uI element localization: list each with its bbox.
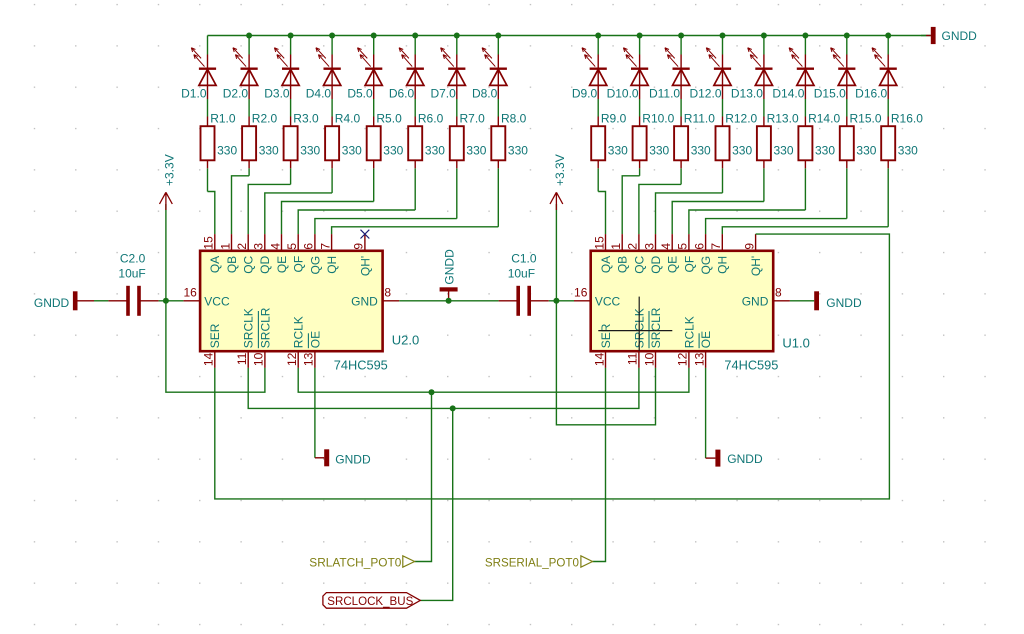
- svg-text:QG: QG: [699, 256, 713, 275]
- capacitor C1.0 10uF: [499, 286, 549, 316]
- resistor R15.0 330: [840, 117, 854, 169]
- svg-text:330: 330: [217, 144, 237, 158]
- svg-text:R14.0: R14.0: [808, 112, 840, 126]
- svg-text:10uF: 10uF: [118, 266, 145, 280]
- U1.0 pin 12 RCLK: [676, 316, 697, 368]
- U1.0 pin 14 SER: [592, 323, 613, 368]
- svg-text:4: 4: [268, 243, 282, 250]
- junction +3.3V / VCC (right): [553, 298, 559, 304]
- svg-text:R7.0: R7.0: [460, 112, 486, 126]
- junction SRCLK / SRCLOCK_BUS drop: [450, 405, 456, 411]
- svg-text:GNDD: GNDD: [335, 452, 371, 466]
- svg-text:D10.0: D10.0: [607, 87, 639, 101]
- wire D3.0 column: [290, 36, 292, 185]
- capacitor C2.0 10uF: [108, 286, 158, 316]
- svg-text:R16.0: R16.0: [891, 112, 923, 126]
- junction D16.0 column / GND bus: [885, 33, 891, 39]
- wire D10.0 column: [639, 36, 641, 176]
- U1.0 pin 6 QG: [692, 234, 713, 274]
- svg-text:330: 330: [466, 144, 486, 158]
- resistor R11.0 330: [674, 117, 688, 169]
- ground GNDD (below U1.0): [715, 450, 763, 467]
- wire U2.0 OE (pin 13) to GNDD: [314, 368, 316, 458]
- svg-text:D11.0: D11.0: [649, 87, 680, 101]
- wire SRCLOCK_BUS drop: [420, 408, 452, 600]
- wire SRCLK net: U2.0 pin 11 to U1.0 pin 11: [248, 368, 639, 409]
- svg-text:16: 16: [574, 285, 588, 299]
- svg-text:OE: OE: [308, 331, 322, 348]
- junction D4.0 column / GND bus: [329, 33, 335, 39]
- svg-text:330: 330: [856, 144, 876, 158]
- svg-text:9: 9: [742, 243, 756, 250]
- no-connect flag U2.0 pin 9: [361, 230, 370, 239]
- svg-text:R13.0: R13.0: [767, 112, 799, 126]
- svg-text:SRSERIAL_POT0: SRSERIAL_POT0: [485, 555, 579, 569]
- U2.0 pin 13 OE: [302, 331, 323, 368]
- svg-text:9: 9: [352, 243, 366, 250]
- svg-text:GNDD: GNDD: [34, 296, 70, 310]
- resistor R7.0 330: [450, 117, 464, 169]
- junction D5.0 column / GND bus: [371, 33, 377, 39]
- U2.0 pin 12 RCLK: [285, 316, 306, 368]
- U2.0 pin 9 QH': [352, 234, 373, 276]
- svg-text:14: 14: [202, 352, 216, 366]
- svg-text:SRCLK: SRCLK: [242, 308, 256, 348]
- wire +3.3V to U2.0 SRCLR (pin 10): [166, 301, 265, 392]
- wire D5.0 column: [373, 36, 375, 202]
- wire R6.0 to shift register pin: [298, 210, 415, 234]
- LED D7.0: [441, 48, 466, 99]
- U2.0 pin 1 QB: [218, 234, 239, 273]
- svg-text:10: 10: [252, 352, 266, 366]
- wire U1.0 OE (pin 13) to GNDD: [705, 368, 707, 458]
- svg-text:15: 15: [592, 236, 606, 250]
- svg-text:R3.0: R3.0: [293, 112, 319, 126]
- svg-text:R5.0: R5.0: [376, 112, 402, 126]
- svg-text:D3.0: D3.0: [264, 87, 290, 101]
- svg-text:R10.0: R10.0: [642, 112, 674, 126]
- U1.0 pin 7 QH: [709, 234, 730, 274]
- svg-text:7: 7: [318, 243, 332, 250]
- svg-text:U1.0: U1.0: [782, 336, 809, 351]
- svg-text:QF: QF: [292, 256, 306, 273]
- LED D14.0: [789, 48, 814, 99]
- svg-text:GNDD: GNDD: [942, 29, 978, 43]
- wire RCLK net: U2.0 pin 12 to U1.0 pin 12: [298, 368, 689, 392]
- junction RCLK / SRLATCH_POT0 drop: [429, 389, 435, 395]
- svg-text:D1.0: D1.0: [181, 87, 207, 101]
- svg-text:R15.0: R15.0: [850, 112, 882, 126]
- svg-text:6: 6: [692, 243, 706, 250]
- junction GNDD / GND wire (middle): [446, 298, 452, 304]
- LED D13.0: [748, 48, 773, 99]
- svg-text:QH: QH: [325, 256, 339, 274]
- svg-text:330: 330: [383, 144, 403, 158]
- svg-text:8: 8: [384, 285, 391, 299]
- svg-text:D6.0: D6.0: [389, 87, 415, 101]
- svg-text:330: 330: [815, 144, 835, 158]
- resistor R13.0 330: [757, 117, 771, 169]
- U2.0 pin 14 SER: [202, 323, 223, 368]
- svg-text:QE: QE: [666, 256, 680, 273]
- svg-text:330: 330: [300, 144, 320, 158]
- svg-text:330: 330: [649, 144, 669, 158]
- svg-text:R9.0: R9.0: [601, 112, 627, 126]
- global label SRCLOCK_BUS: [323, 593, 420, 609]
- svg-text:74HC595: 74HC595: [334, 358, 388, 373]
- wire C1.0 to U1.0 VCC: [549, 300, 574, 302]
- svg-text:2: 2: [626, 243, 640, 250]
- junction D10.0 column / GND bus: [637, 33, 643, 39]
- svg-text:R8.0: R8.0: [501, 112, 527, 126]
- svg-text:QB: QB: [225, 256, 239, 273]
- svg-text:D16.0: D16.0: [855, 87, 887, 101]
- svg-text:OE: OE: [699, 331, 713, 348]
- svg-text:74HC595: 74HC595: [724, 358, 778, 373]
- ground GNDD (middle, rotated): [440, 249, 458, 301]
- wire D4.0 column: [331, 36, 333, 193]
- U1.0 pin 11 SRCLK: [626, 308, 647, 368]
- wire serial chain: U1.0 QH' (pin 9) to U2.0 SER (pin 14): [215, 234, 890, 499]
- svg-text:SRLATCH_POT0: SRLATCH_POT0: [309, 555, 401, 569]
- svg-text:D13.0: D13.0: [731, 87, 763, 101]
- LED D12.0: [706, 48, 731, 99]
- U1.0 pin 4 QE: [659, 234, 680, 273]
- LED D11.0: [665, 48, 690, 99]
- junction D11.0 column / GND bus: [678, 33, 684, 39]
- U1.0 pin 9 QH': [742, 234, 763, 276]
- wire SRLATCH_POT0 drop: [415, 392, 432, 561]
- svg-text:12: 12: [676, 352, 690, 366]
- LED D10.0: [623, 48, 648, 99]
- power +3.3V (right): [550, 154, 567, 301]
- U2.0 pin 16 VCC: [183, 285, 230, 308]
- svg-text:3: 3: [252, 243, 266, 250]
- svg-text:1: 1: [218, 243, 232, 250]
- svg-text:+3.3V: +3.3V: [553, 154, 567, 186]
- wire R8.0 to shift register pin: [332, 227, 499, 234]
- resistor R2.0 330: [242, 117, 256, 169]
- U2.0 pin 15 QA: [202, 234, 223, 273]
- resistor R4.0 330: [325, 117, 339, 169]
- U2.0 pin 6 QG: [302, 234, 323, 274]
- U2.0 pin 7 QH: [318, 234, 339, 274]
- svg-text:U2.0: U2.0: [392, 332, 419, 347]
- power +3.3V (left): [160, 154, 177, 301]
- LED D2.0: [233, 48, 258, 99]
- svg-text:QH': QH': [749, 256, 763, 276]
- svg-text:10: 10: [642, 352, 656, 366]
- svg-text:330: 330: [608, 144, 628, 158]
- U2.0 pin 11 SRCLK: [235, 308, 256, 368]
- resistor R3.0 330: [284, 117, 298, 169]
- svg-text:330: 330: [774, 144, 794, 158]
- svg-text:11: 11: [626, 352, 640, 365]
- svg-text:R1.0: R1.0: [210, 112, 236, 126]
- wire U2.0 GND to C1.0: [399, 300, 498, 302]
- svg-text:D12.0: D12.0: [689, 87, 721, 101]
- junction D13.0 column / GND bus: [761, 33, 767, 39]
- svg-text:D15.0: D15.0: [814, 87, 846, 101]
- wire R15.0 to shift register pin: [706, 219, 847, 235]
- wire R5.0 to shift register pin: [282, 202, 374, 235]
- svg-text:RCLK: RCLK: [682, 316, 696, 348]
- svg-text:R4.0: R4.0: [335, 112, 361, 126]
- svg-text:330: 330: [691, 144, 711, 158]
- wire D2.0 column: [248, 36, 250, 176]
- resistor R5.0 330: [367, 117, 381, 169]
- wire R9.0 to shift register pin: [598, 192, 605, 235]
- svg-text:330: 330: [898, 144, 918, 158]
- LED D3.0: [274, 48, 299, 99]
- svg-text:SRCLR: SRCLR: [258, 307, 272, 348]
- svg-text:QC: QC: [632, 255, 646, 273]
- U1.0 pin 3 QD: [642, 234, 663, 274]
- svg-text:QH: QH: [716, 256, 730, 274]
- svg-text:D2.0: D2.0: [223, 87, 249, 101]
- wire R3.0 to shift register pin: [248, 184, 290, 234]
- svg-text:D8.0: D8.0: [472, 87, 498, 101]
- junction D8.0 column / GND bus: [495, 33, 501, 39]
- wire R11.0 to shift register pin: [639, 184, 681, 234]
- svg-text:RCLK: RCLK: [292, 316, 306, 348]
- svg-text:5: 5: [676, 243, 690, 250]
- wire D8.0 column: [497, 36, 499, 227]
- LED D1.0: [191, 48, 216, 99]
- wire SRSERIAL_POT0 to U1.0 SER (pin 14): [593, 368, 606, 562]
- U2.0 pin 3 QD: [252, 234, 273, 274]
- svg-text:7: 7: [709, 243, 723, 250]
- U1.0 pin 13 OE: [692, 331, 713, 368]
- wire R14.0 to shift register pin: [689, 210, 806, 234]
- wire R16.0 to shift register pin: [722, 227, 888, 234]
- junction D2.0 column / GND bus: [246, 33, 252, 39]
- wire D1.0 column: [207, 36, 209, 192]
- wire GND bus (top horizontal): [208, 35, 931, 37]
- svg-text:VCC: VCC: [204, 295, 230, 309]
- wire R2.0 to shift register pin: [232, 176, 250, 234]
- svg-text:R11.0: R11.0: [684, 112, 715, 126]
- resistor R1.0 330: [201, 117, 215, 169]
- LED D16.0: [872, 48, 897, 99]
- U2.0 pin 2 QC: [235, 234, 256, 274]
- wire D13.0 column: [763, 36, 765, 202]
- svg-text:D7.0: D7.0: [430, 87, 456, 101]
- svg-text:15: 15: [202, 236, 216, 250]
- junction D6.0 column / GND bus: [412, 33, 418, 39]
- svg-text:13: 13: [302, 352, 316, 366]
- hierarchical label SRLATCH_POT0: [309, 555, 414, 569]
- svg-text:14: 14: [592, 352, 606, 366]
- junction D14.0 column / GND bus: [802, 33, 808, 39]
- wire D14.0 column: [804, 36, 806, 211]
- svg-text:330: 330: [425, 144, 445, 158]
- svg-text:QB: QB: [616, 256, 630, 273]
- wire D15.0 column: [846, 36, 848, 219]
- svg-text:6: 6: [302, 243, 316, 250]
- wire +3.3V to U1.0 SRCLR (pin 10): [556, 301, 655, 425]
- svg-text:4: 4: [659, 243, 673, 250]
- junction D15.0 column / GND bus: [844, 33, 850, 39]
- U1.0 pin 16 VCC: [574, 285, 621, 308]
- IC U2.0 74HC595 body: [200, 251, 383, 351]
- U1.0 pin 15 QA: [592, 234, 613, 273]
- svg-text:R6.0: R6.0: [418, 112, 444, 126]
- U2.0 pin 10 SRCLR: [252, 307, 273, 368]
- wire D9.0 column: [597, 36, 599, 192]
- svg-text:SRCLR: SRCLR: [649, 307, 663, 348]
- junction D3.0 column / GND bus: [288, 33, 294, 39]
- svg-text:12: 12: [285, 352, 299, 366]
- svg-text:SER: SER: [599, 323, 613, 348]
- svg-text:13: 13: [692, 352, 706, 366]
- LED D9.0: [582, 48, 607, 99]
- svg-text:VCC: VCC: [595, 295, 621, 309]
- LED D4.0: [316, 48, 341, 99]
- svg-text:QD: QD: [258, 255, 272, 273]
- wire D6.0 column: [414, 36, 416, 211]
- U1.0 pin 5 QF: [676, 234, 697, 272]
- U2.0 pin 5 QF: [285, 234, 306, 272]
- svg-text:GNDD: GNDD: [826, 296, 862, 310]
- LED D5.0: [358, 48, 383, 99]
- wire D12.0 column: [722, 36, 724, 193]
- U1.0 pin 8 GND: [742, 285, 790, 308]
- resistor R14.0 330: [798, 117, 812, 169]
- U2.0 pin 4 QE: [268, 234, 289, 273]
- wire D7.0 column: [456, 36, 458, 219]
- resistor R9.0 330: [591, 117, 605, 169]
- wire R7.0 to shift register pin: [315, 219, 457, 235]
- resistor R16.0 330: [881, 117, 895, 169]
- svg-text:QF: QF: [682, 256, 696, 273]
- svg-text:D9.0: D9.0: [572, 87, 598, 101]
- wire R1.0 to shift register pin: [208, 192, 215, 235]
- ground GNDD (far left): [34, 291, 94, 310]
- wire R12.0 to shift register pin: [656, 193, 723, 234]
- svg-text:D4.0: D4.0: [306, 87, 332, 101]
- LED D8.0: [482, 48, 507, 99]
- svg-text:R12.0: R12.0: [725, 112, 757, 126]
- ground GNDD (right of U1.0): [790, 291, 862, 310]
- hierarchical label SRSERIAL_POT0: [485, 555, 593, 569]
- LED D6.0: [399, 48, 424, 99]
- svg-text:GNDD: GNDD: [442, 249, 456, 285]
- wire R10.0 to shift register pin: [622, 176, 639, 234]
- wire GNDD to C2.0: [94, 300, 108, 302]
- svg-text:QA: QA: [599, 256, 613, 273]
- resistor R6.0 330: [408, 117, 422, 169]
- graphic line (horizontal) inside U1.0: [598, 330, 672, 332]
- svg-text:GND: GND: [742, 295, 769, 309]
- graphic line (vertical) inside U1.0: [638, 297, 640, 351]
- svg-text:330: 330: [732, 144, 752, 158]
- svg-text:5: 5: [285, 243, 299, 250]
- svg-text:C2.0: C2.0: [120, 252, 146, 266]
- svg-text:QC: QC: [242, 255, 256, 273]
- svg-text:QA: QA: [208, 256, 222, 273]
- U1.0 pin 2 QC: [626, 234, 647, 274]
- svg-text:2: 2: [235, 243, 249, 250]
- svg-text:GNDD: GNDD: [727, 452, 763, 466]
- U2.0 pin 8 GND: [351, 285, 399, 308]
- wire C2.0 to U2.0 VCC: [159, 300, 184, 302]
- svg-text:1: 1: [609, 243, 623, 250]
- svg-text:R2.0: R2.0: [252, 112, 278, 126]
- svg-text:330: 330: [259, 144, 279, 158]
- U1.0 pin 1 QB: [609, 234, 630, 273]
- svg-text:11: 11: [235, 352, 249, 365]
- resistor R12.0 330: [716, 117, 730, 169]
- svg-text:D14.0: D14.0: [772, 87, 804, 101]
- junction D7.0 column / GND bus: [454, 33, 460, 39]
- svg-text:D5.0: D5.0: [347, 87, 373, 101]
- wire R13.0 to shift register pin: [672, 202, 764, 235]
- svg-text:QH': QH': [358, 256, 372, 276]
- svg-text:QE: QE: [275, 256, 289, 273]
- resistor R8.0 330: [491, 117, 505, 169]
- junction D12.0 column / GND bus: [720, 33, 726, 39]
- wire R4.0 to shift register pin: [265, 193, 332, 234]
- svg-text:GND: GND: [351, 295, 378, 309]
- ground GNDD (below U2.0): [324, 449, 371, 466]
- svg-text:SER: SER: [208, 323, 222, 348]
- wire D16.0 column: [887, 36, 889, 227]
- junction +3.3V / VCC (left): [163, 298, 169, 304]
- svg-text:+3.3V: +3.3V: [163, 154, 177, 186]
- svg-text:330: 330: [508, 144, 528, 158]
- svg-text:16: 16: [183, 285, 197, 299]
- svg-text:10uF: 10uF: [508, 266, 535, 280]
- svg-text:3: 3: [642, 243, 656, 250]
- wire D11.0 column: [680, 36, 682, 185]
- LED D15.0: [831, 48, 856, 99]
- svg-text:C1.0: C1.0: [511, 252, 537, 266]
- svg-text:QG: QG: [308, 256, 322, 275]
- svg-text:330: 330: [342, 144, 362, 158]
- svg-text:SRCLOCK_BUS: SRCLOCK_BUS: [327, 594, 413, 608]
- svg-text:QD: QD: [649, 255, 663, 273]
- svg-text:8: 8: [775, 285, 782, 299]
- ground GNDD (top right): [921, 27, 977, 44]
- junction D9.0 column / GND bus: [595, 33, 601, 39]
- IC U1.0 74HC595 body: [591, 251, 774, 351]
- resistor R10.0 330: [633, 117, 647, 169]
- U1.0 pin 10 SRCLR: [642, 307, 663, 368]
